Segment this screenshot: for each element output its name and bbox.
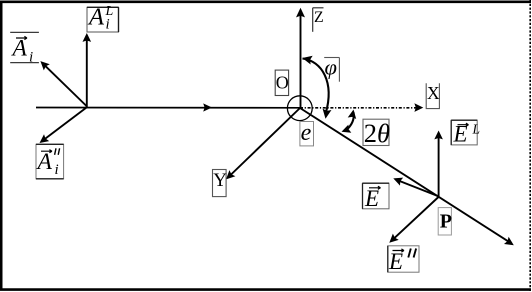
svg-text:i: i [29,50,33,66]
label box 2theta [363,118,390,148]
wire horizontal main [36,107,300,109]
svg-text:Z: Z [314,9,324,26]
origin circle e [287,96,312,121]
axis Y (down-left from origin) [223,108,300,182]
arrowhead mid horizontal [203,103,212,111]
label box A_i^L [87,3,119,32]
svg-text:i: i [106,17,110,33]
svg-text:X: X [427,83,440,103]
label box Y [213,170,228,197]
label box Z [313,8,324,32]
label box X [426,83,440,108]
svg-text:2θ: 2θ [364,118,390,148]
axis X dash-dot (right from origin) [300,103,423,112]
label box A_i'' [36,144,64,179]
vector E (up-left from P) [392,174,439,196]
angle arc 2theta [340,109,358,136]
label box A_i (overline/underline) [10,32,39,65]
svg-text:E: E [364,186,379,211]
angle arc phi [301,54,331,120]
label box e [300,120,314,146]
label box O [275,70,289,95]
vector A_i^L (up from left junction) [83,33,92,108]
svg-text:O: O [276,73,289,93]
svg-text:L: L [472,122,481,137]
axis Z (up from origin) [296,8,305,108]
svg-text:E: E [388,249,403,274]
label box E [363,183,390,211]
frame border right (dashed) [529,0,531,292]
svg-text:φ: φ [325,55,337,80]
label box E'' [388,246,419,274]
label box E^L [451,120,480,146]
svg-text:i: i [55,162,59,178]
svg-text:A: A [87,3,105,30]
vector A_i (up-left from junction) [37,58,86,106]
vector E'' (down-left from P) [386,197,439,246]
svg-text:P: P [440,211,452,233]
vector E^L (up from P) [434,131,443,197]
label box phi [324,55,339,82]
svg-text:e: e [301,120,312,146]
svg-text:Y: Y [213,170,227,191]
label box P [438,208,452,235]
vector main (origin through P to lower right) [300,108,516,249]
vector A_i'' (down-left from junction) [37,108,87,147]
